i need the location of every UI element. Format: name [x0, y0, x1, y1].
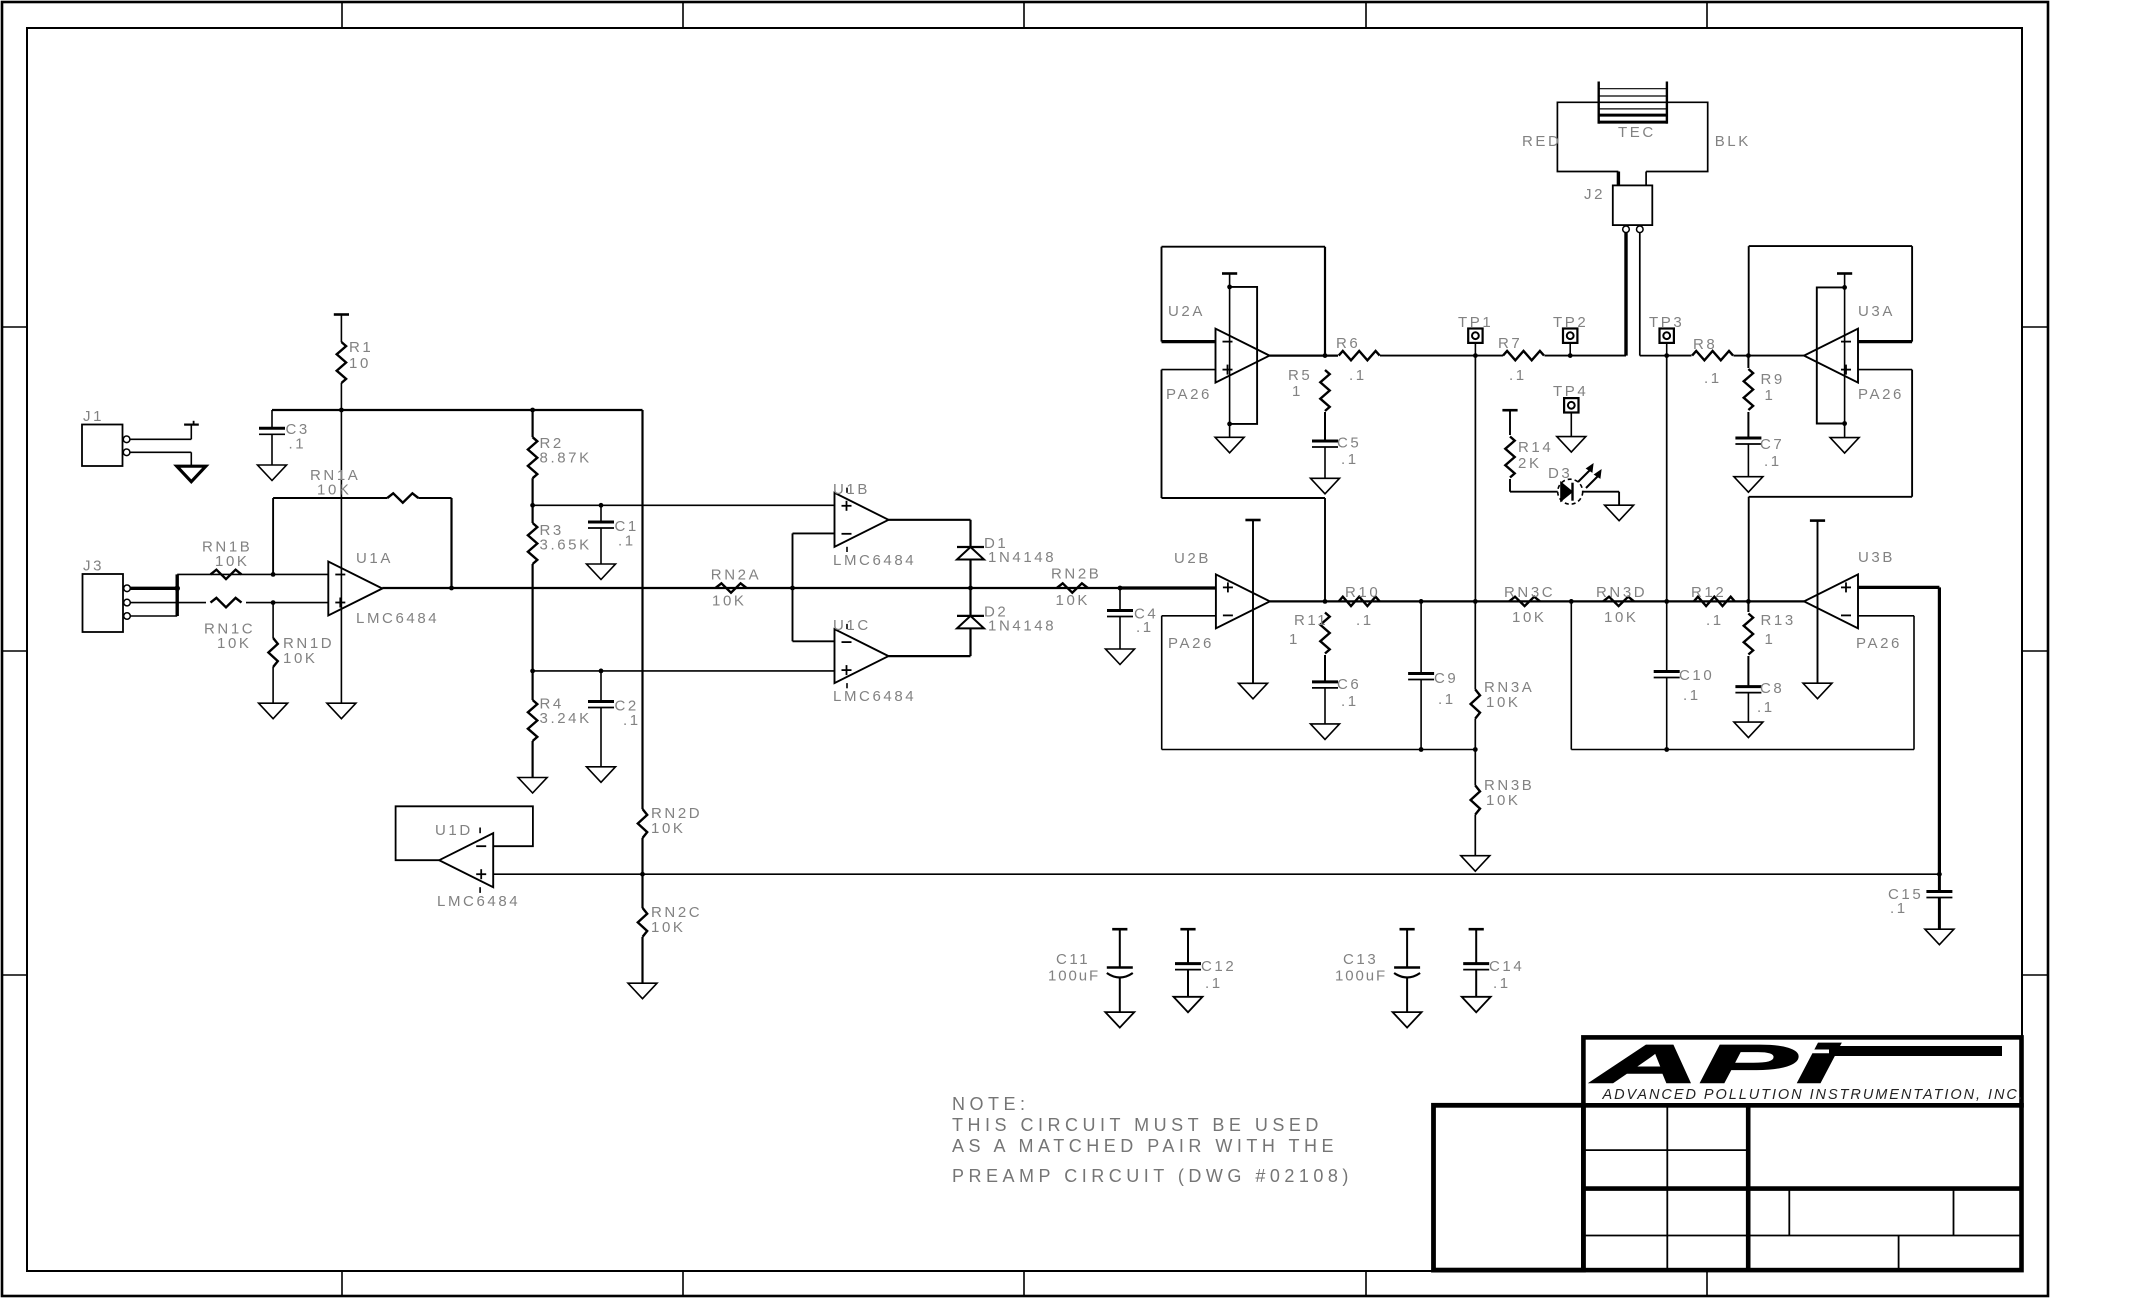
svg-text:.1: .1: [1341, 693, 1359, 710]
resistor R14: [1509, 410, 1511, 435]
svg-text:10K: 10K: [1486, 792, 1521, 809]
svg-text:10K: 10K: [1056, 592, 1091, 609]
svg-text:LMC6484: LMC6484: [833, 688, 916, 705]
svg-text:.1: .1: [289, 436, 307, 453]
svg-text:PA26: PA26: [1856, 635, 1902, 652]
svg-text:10K: 10K: [651, 919, 686, 936]
svg-text:U2B: U2B: [1174, 550, 1211, 567]
junction C15/bus: [1937, 872, 1942, 877]
module box U3A (PA26): [1749, 245, 1912, 247]
power bar (R1 top): [334, 313, 349, 316]
junction RN1B/feedback: [271, 572, 276, 577]
resistor RN3A: [1471, 690, 1480, 719]
junction U1A output/feedback: [449, 586, 454, 591]
svg-text:NOTE:: NOTE:: [952, 1094, 1030, 1114]
capacitor C13 100uF: [1400, 928, 1415, 931]
svg-text:J3: J3: [83, 558, 104, 575]
svg-text:10K: 10K: [1486, 694, 1521, 711]
resistor RN3D: [1603, 597, 1634, 606]
wire R7 to J2 pin1 corner: [1545, 355, 1627, 357]
svg-text:APi: APi: [1590, 1034, 1840, 1094]
ground (TP4): [1557, 437, 1586, 453]
svg-text:THIS CIRCUIT MUST BE USED: THIS CIRCUIT MUST BE USED: [952, 1115, 1323, 1135]
ground (C7): [1734, 477, 1763, 493]
junction C1: [599, 503, 604, 508]
wire J3 pin3: [130, 615, 177, 617]
svg-text:.1: .1: [1757, 699, 1775, 716]
border zone ticks top: [341, 2, 343, 28]
wire TEC to J2 pin1 (thick): [1617, 172, 1620, 186]
svg-text:C5: C5: [1337, 435, 1361, 452]
wire U3A supply loop: [1817, 287, 1845, 423]
svg-text:C11: C11: [1056, 951, 1090, 968]
wire U1C output to D2: [889, 655, 971, 657]
svg-text:.1: .1: [1136, 619, 1154, 636]
resistor R5: [1320, 370, 1329, 411]
svg-text:1N4148: 1N4148: [988, 549, 1056, 566]
LED D3 arrows: [1578, 470, 1590, 482]
svg-text:.1: .1: [1764, 453, 1782, 470]
wire TEC drive rail (R6-R7-J2): [1380, 355, 1503, 357]
junction top rail/R2: [530, 408, 535, 413]
wire J3 pin1 (thick): [130, 587, 177, 590]
wire top supply rail y=410: [272, 409, 643, 411]
op-amp U1D: [439, 833, 493, 887]
wire R14 to LED D3: [1510, 491, 1558, 493]
svg-text:C14: C14: [1489, 958, 1524, 975]
wire U2A output/box right edge: [1324, 247, 1326, 356]
resistor RN3C: [1509, 597, 1540, 606]
svg-text:100uF: 100uF: [1048, 968, 1100, 985]
ground (RN1D): [259, 703, 288, 719]
junction C2: [599, 669, 604, 674]
wire U1B/U1C minus feedback: [792, 533, 794, 641]
wire U3A output: [1748, 355, 1804, 357]
svg-text:.1: .1: [1683, 687, 1701, 704]
capacitor C9: [1420, 601, 1422, 673]
capacitor C6: [1312, 680, 1338, 683]
svg-text:R1: R1: [349, 339, 373, 356]
resistor R13: [1744, 614, 1753, 655]
ground (U1A V-): [327, 703, 356, 719]
power bar (C12): [1180, 928, 1195, 931]
svg-text:C9: C9: [1434, 670, 1458, 687]
capacitor C4: [1119, 588, 1121, 611]
module box U2B (PA26) feedback loop: [1162, 615, 1216, 617]
junction TEC- node/C10: [1664, 599, 1669, 604]
wire U1A power line: [340, 410, 342, 703]
wire U3A non-inverting input: [1859, 369, 1913, 371]
junction R12/R13/U3B: [1746, 599, 1751, 604]
wire U2A corner to U2B output: [1324, 498, 1326, 601]
wire U2A output: [1270, 355, 1339, 357]
junction R1/top rail: [339, 408, 344, 413]
svg-text:.1: .1: [618, 533, 636, 550]
resistor RN1D: [272, 603, 274, 638]
resistor RN2A: [716, 583, 747, 592]
svg-text:U1A: U1A: [356, 550, 393, 567]
wire U2B non-inverting input (thick): [1120, 586, 1216, 589]
svg-text:R6: R6: [1336, 335, 1360, 352]
junction R3/R4: [530, 669, 535, 674]
svg-text:U3A: U3A: [1858, 303, 1895, 320]
junction C9/feedback edge: [1419, 747, 1424, 752]
svg-text:.1: .1: [1341, 451, 1359, 468]
svg-text:C7: C7: [1760, 436, 1784, 453]
junction feedback node/RN3D: [1569, 599, 1574, 604]
junction diodes/main rail: [968, 586, 973, 591]
wire U2A power pins: [1229, 274, 1231, 424]
wire U2A non-inverting input: [1162, 369, 1216, 371]
svg-text:.1: .1: [1706, 612, 1724, 629]
svg-text:RN2B: RN2B: [1051, 566, 1101, 583]
junction R8/R9/U3A: [1746, 353, 1751, 358]
svg-text:R5: R5: [1288, 367, 1312, 384]
svg-text:U1C: U1C: [833, 617, 871, 634]
wire U3B input from bottom bus (thick): [1938, 587, 1941, 874]
svg-text:100uF: 100uF: [1335, 968, 1387, 985]
svg-text:1: 1: [1292, 383, 1303, 400]
ground (U2B): [1239, 683, 1268, 699]
svg-text:10K: 10K: [215, 553, 250, 570]
power bar (R14): [1502, 409, 1517, 412]
svg-text:J2: J2: [1584, 186, 1605, 203]
svg-text:RN3C: RN3C: [1504, 584, 1555, 601]
wire J1 pin2 to ground: [130, 451, 191, 453]
wire lower ref rail y=670.9: [533, 670, 835, 672]
svg-text:R9: R9: [1761, 371, 1785, 388]
ground (C15): [1925, 929, 1954, 945]
junction C9/mid rail: [1419, 599, 1424, 604]
svg-text:C6: C6: [1337, 676, 1361, 693]
API logo bar: [1829, 1046, 2002, 1056]
ground (U3B): [1803, 683, 1832, 699]
svg-text:R8: R8: [1693, 336, 1717, 353]
svg-text:3.24K: 3.24K: [540, 710, 592, 727]
ground (RN3B): [1461, 856, 1490, 872]
resistor RN1A: [387, 493, 418, 502]
svg-text:LMC6484: LMC6484: [437, 893, 520, 910]
module box U2A (PA26): [1162, 246, 1326, 248]
svg-text:PA26: PA26: [1168, 635, 1214, 652]
svg-text:RED: RED: [1522, 133, 1561, 150]
wire U1D feedback loop: [396, 806, 533, 860]
power bar (U3A V+): [1837, 272, 1852, 275]
svg-text:1: 1: [1765, 631, 1776, 648]
svg-text:10K: 10K: [317, 482, 352, 499]
ground (U3A): [1830, 438, 1859, 454]
ground (J1): [177, 466, 206, 482]
capacitor C3: [271, 410, 273, 428]
wire inverting input rail y=574.4: [177, 573, 328, 575]
resistor RN1C: [211, 598, 242, 607]
resistor RN1B: [211, 570, 242, 579]
svg-text:C10: C10: [1679, 667, 1714, 684]
wire U3A box corner to mid rail: [1748, 497, 1750, 601]
svg-text:1: 1: [1289, 631, 1300, 648]
junction TP2: [1568, 353, 1573, 358]
junction TP3: [1664, 353, 1669, 358]
resistor RN2D: [638, 809, 647, 838]
svg-text:3.65K: 3.65K: [540, 537, 592, 554]
capacitor C7: [1735, 437, 1761, 440]
capacitor C2: [600, 671, 602, 702]
svg-text:ADVANCED POLLUTION INSTRUMENTA: ADVANCED POLLUTION INSTRUMENTATION, INC.: [1602, 1087, 2025, 1103]
svg-text:1: 1: [1765, 387, 1776, 404]
op-amp U2B: [1216, 574, 1270, 628]
power bar (C14): [1469, 928, 1484, 931]
resistor RN2C: [641, 874, 643, 908]
connector J3: [83, 574, 124, 632]
svg-text:PA26: PA26: [1166, 386, 1212, 403]
wire main signal rail y=588: [382, 587, 1216, 589]
wire U3B power line: [1817, 521, 1819, 684]
wire bottom bus y=873.9: [493, 873, 1939, 875]
svg-text:10K: 10K: [712, 593, 747, 610]
svg-text:C12: C12: [1201, 958, 1236, 975]
capacitor C8: [1735, 685, 1761, 688]
ground (RN2C): [628, 983, 657, 999]
wire TP1 node to mid rail: [1474, 356, 1476, 602]
svg-text:1N4148: 1N4148: [988, 618, 1056, 635]
ground (D3): [1605, 505, 1634, 521]
junction TP1: [1473, 353, 1478, 358]
TEC assembly box: [1557, 102, 1707, 171]
connector J1: [82, 425, 123, 467]
capacitor C11 100uF: [1112, 928, 1127, 931]
op-amp U1B: [835, 493, 889, 547]
capacitor C1: [600, 505, 602, 522]
ground (C12): [1174, 997, 1203, 1013]
svg-text:AS A MATCHED PAIR WITH THE: AS A MATCHED PAIR WITH THE: [952, 1136, 1338, 1156]
ground (C2): [587, 767, 616, 783]
TEC element hatch: [1597, 82, 1599, 124]
junction J3 pin1: [174, 586, 180, 592]
svg-text:.1: .1: [623, 712, 641, 729]
svg-text:10: 10: [349, 355, 371, 372]
capacitor C15: [1938, 874, 1941, 891]
junction C4/main rail: [1118, 586, 1123, 591]
ground (C1): [587, 564, 616, 580]
ground (C6): [1311, 724, 1340, 740]
wire TP3 node to mid rail: [1666, 356, 1668, 601]
svg-text:C8: C8: [1760, 680, 1784, 697]
wire U2A V- to ground: [1229, 424, 1231, 437]
diode D1 1N4148: [957, 546, 984, 548]
svg-text:LMC6484: LMC6484: [356, 610, 439, 627]
svg-text:U1B: U1B: [833, 481, 870, 498]
border zone ticks left: [2, 326, 27, 328]
op-amp U1C: [835, 629, 889, 683]
svg-text:LMC6484: LMC6484: [833, 552, 916, 569]
title block main grid: [1583, 1105, 2021, 1270]
capacitor C12: [1187, 929, 1189, 963]
svg-text:U2A: U2A: [1168, 303, 1205, 320]
svg-text:R12: R12: [1691, 584, 1726, 601]
wire U2A supply loop: [1230, 287, 1258, 424]
wire TEC to J2 pin2: [1645, 172, 1647, 186]
wire U3B non-inverting input (thick): [1858, 586, 1939, 589]
svg-text:.1: .1: [1356, 612, 1374, 629]
resistor R4: [531, 671, 533, 700]
svg-text:J1: J1: [83, 408, 104, 425]
svg-text:.1: .1: [1349, 367, 1367, 384]
svg-text:.1: .1: [1890, 900, 1908, 917]
wire U3A V- to ground: [1844, 424, 1846, 438]
wire J2 pin1 drop (thick): [1624, 233, 1627, 356]
svg-text:R7: R7: [1498, 335, 1522, 352]
svg-text:10K: 10K: [1512, 609, 1547, 626]
svg-text:TEC: TEC: [1618, 124, 1656, 141]
ground (C4): [1106, 649, 1135, 665]
svg-text:RN3D: RN3D: [1596, 584, 1647, 601]
junction main/limiter feedback: [790, 586, 795, 591]
wire U3A inverting input (thick): [1859, 340, 1913, 343]
junction C10/U3B feedback edge: [1664, 747, 1669, 752]
svg-text:RN2A: RN2A: [711, 567, 761, 584]
API logo: [1590, 1034, 1840, 1094]
resistor R10: [1339, 597, 1380, 606]
resistor R11: [1320, 613, 1329, 654]
junction RN2D/bus: [640, 872, 645, 877]
resistor RN3B: [1471, 786, 1480, 815]
power bar (U2B V+): [1245, 519, 1260, 522]
resistor R7: [1503, 351, 1544, 360]
wire U2A inverting input (thick): [1162, 340, 1216, 343]
svg-text:BLK: BLK: [1715, 133, 1751, 150]
svg-text:R13: R13: [1761, 612, 1796, 629]
junction R2/R3: [530, 503, 535, 508]
capacitor C5: [1312, 440, 1338, 443]
svg-text:.1: .1: [1438, 691, 1456, 708]
svg-text:.1: .1: [1509, 367, 1527, 384]
wire J3 pin2 to RN1C: [130, 602, 206, 604]
svg-text:R14: R14: [1518, 439, 1553, 456]
border zone ticks right: [2022, 326, 2048, 328]
junction RN1C/RN1D: [271, 600, 276, 605]
capacitor C14: [1475, 929, 1477, 963]
ground (C5): [1311, 478, 1340, 494]
op-amp U3B: [1804, 574, 1858, 628]
svg-text:10K: 10K: [651, 820, 686, 837]
svg-text:10K: 10K: [217, 635, 252, 652]
wire U3A power pins: [1844, 274, 1846, 424]
title block logo box: [1583, 1037, 2021, 1105]
power bar (U3B V+): [1810, 519, 1825, 522]
svg-text:10K: 10K: [283, 650, 318, 667]
wire upper ref rail y=505.3: [533, 504, 835, 506]
power bar (U2A V+): [1222, 272, 1237, 275]
wire RN1A feedback loop: [272, 498, 274, 574]
border zone ticks bottom: [341, 1271, 343, 1296]
svg-text:.1: .1: [1704, 370, 1722, 387]
resistor R3: [528, 523, 537, 564]
wire top rail corner down to RN2D: [641, 410, 643, 809]
ground (C14): [1462, 997, 1491, 1013]
connector J2: [1613, 185, 1653, 225]
op-amp U2A: [1216, 329, 1270, 383]
wire J1 pin1 to tip symbol: [130, 438, 191, 440]
resistor R2: [531, 410, 533, 437]
svg-text:C13: C13: [1343, 951, 1378, 968]
module box U3B (PA26) feedback loop: [1858, 615, 1914, 617]
resistor R6: [1339, 351, 1380, 360]
svg-text:R10: R10: [1345, 584, 1380, 601]
resistor R12: [1694, 597, 1735, 606]
svg-text:PA26: PA26: [1858, 386, 1904, 403]
svg-text:.1: .1: [1205, 975, 1223, 992]
op-amp U3A: [1804, 329, 1858, 383]
junction RN3A/RN3B: [1473, 747, 1478, 752]
svg-text:R11: R11: [1294, 612, 1328, 629]
ground (R4): [518, 778, 547, 794]
op-amp U1A: [328, 562, 382, 616]
resistor R1: [340, 315, 342, 343]
resistor R9: [1744, 369, 1753, 410]
svg-text:U3B: U3B: [1858, 549, 1895, 566]
junction TP1 chain/mid rail: [1473, 599, 1478, 604]
junction U2A output/R5: [1323, 353, 1328, 358]
tip symbol: [184, 424, 199, 426]
wire J2 pin2 drop: [1639, 233, 1641, 356]
svg-text:U1D: U1D: [435, 822, 473, 839]
ground (U2A): [1215, 437, 1244, 453]
svg-text:8.87K: 8.87K: [540, 450, 592, 467]
wire D3 to ground: [1618, 492, 1620, 506]
diode D2 1N4148: [969, 588, 971, 616]
svg-text:PREAMP CIRCUIT (DWG #02108): PREAMP CIRCUIT (DWG #02108): [952, 1166, 1353, 1186]
wire J3 shield vertical (thick): [175, 574, 178, 616]
ground (C3): [258, 465, 287, 481]
svg-text:.1: .1: [1493, 975, 1511, 992]
resistor R8: [1692, 351, 1733, 360]
wire mid rail (U2B out to U3B): [1270, 600, 1804, 602]
svg-text:2K: 2K: [1518, 455, 1542, 472]
capacitor C10: [1666, 601, 1668, 671]
wire U1B output to D1: [889, 519, 971, 521]
wire U2B power line: [1252, 520, 1254, 683]
svg-text:10K: 10K: [1604, 609, 1639, 626]
resistor RN2B: [1057, 583, 1088, 592]
ground (C8): [1734, 722, 1763, 738]
junction U2B output/R11: [1323, 599, 1328, 604]
title block left cell: [1434, 1105, 1584, 1270]
